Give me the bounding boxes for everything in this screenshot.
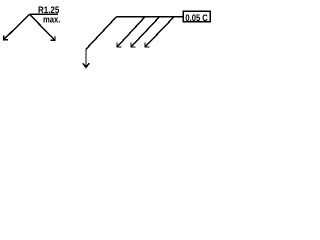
arrowhead lower-left — [4, 35, 9, 39]
arrowhead down — [83, 63, 89, 67]
branch leader 3 — [145, 17, 174, 47]
shelf line under R1.25 — [30, 13, 59, 15]
frame box — [183, 11, 210, 21]
arrowhead lower-right — [51, 36, 56, 40]
vertical drop — [85, 49, 87, 67]
svg-text:max.: max. — [43, 14, 60, 25]
arrowhead branch 1 — [117, 43, 121, 47]
arrowhead branch 2 — [131, 43, 135, 47]
branch leader 1 — [117, 17, 145, 47]
horizontal leader line — [83, 17, 183, 68]
leader to lower-left surface — [4, 14, 30, 39]
arrowhead branch 3 — [145, 43, 149, 47]
svg-text:0.05 C: 0.05 C — [185, 13, 208, 24]
engineering drawing: radius callout and datum leader figure — [0, 0, 212, 76]
branch leader 2 — [131, 17, 160, 47]
leader to lower-right surface — [30, 14, 56, 40]
elbow diagonal down-left — [86, 17, 116, 49]
